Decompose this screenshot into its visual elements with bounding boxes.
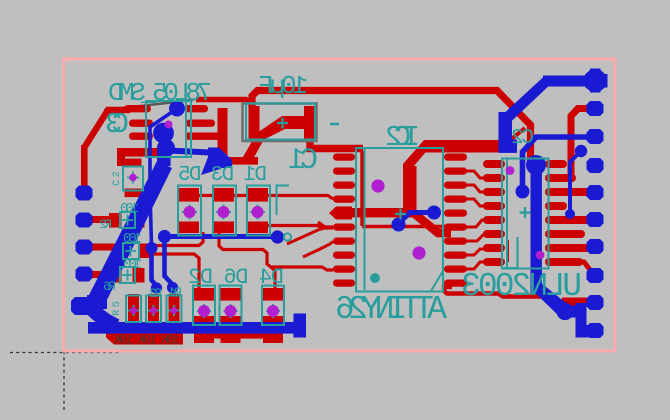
pad IC1 left row B	[129, 120, 153, 127]
svg-text:10K 10K 10K: 10K 10K 10K	[114, 334, 180, 348]
pad IC1 right row C + stub to R-vertical	[185, 133, 223, 140]
pad dot R5	[167, 282, 178, 293]
pad C1 left	[249, 106, 260, 139]
via big blob top	[153, 123, 174, 144]
C1 minus	[330, 123, 339, 126]
via dot end	[565, 209, 575, 219]
pad X1-1 octagon	[76, 186, 93, 282]
wire C2 corner bar	[117, 148, 164, 157]
svg-text:R2: R2	[99, 217, 112, 232]
wire IC2 interior vertical	[403, 166, 417, 217]
IC3 ULN2003 outline	[502, 159, 549, 269]
wire down to R5 top	[165, 237, 173, 287]
GND bus bar bottom	[88, 322, 296, 334]
wire GND thick diagonal	[88, 161, 172, 306]
pads IC3 right column rows with traces to connector	[545, 160, 590, 266]
wire thin from it down	[570, 153, 579, 212]
wire IC2 interior diag SE	[410, 210, 451, 233]
svg-text:10µF: 10µF	[258, 71, 308, 101]
wire Z bottom-right	[565, 306, 582, 318]
svg-text:D4 D6 D2: D4 D6 D2	[188, 265, 284, 290]
wire IC3 thick vertical	[531, 165, 542, 294]
wire jog IC3 row262 to octagon 276	[578, 262, 591, 271]
svg-text:IC2: IC2	[385, 121, 420, 154]
pad IC3 big round	[526, 155, 546, 175]
bracket silk near C1	[277, 186, 290, 216]
via dot x151	[146, 242, 158, 254]
wire thin net y254 to D2 top	[146, 254, 199, 288]
wire thin net D5 bottom to R4	[146, 232, 203, 246]
diode D6 pads	[221, 288, 241, 301]
resistor R5 vertical bar	[169, 294, 180, 324]
GND corner blob + square cap	[71, 297, 93, 315]
wire pad1 left column riser	[81, 145, 88, 193]
svg-text:D1 D3 D5: D1 D3 D5	[178, 164, 267, 187]
wire down to R3 top	[152, 248, 157, 288]
wire C1 right pad to IC2 x362	[310, 134, 363, 149]
svg-text:100: 100	[120, 201, 139, 217]
diode D2 pads	[194, 288, 214, 301]
via mid dot	[143, 184, 157, 198]
GND bus end cap	[294, 314, 307, 338]
wire diag B to IC2 interior	[403, 140, 436, 208]
IC3 plus	[520, 207, 531, 218]
wire stub X1-4 to R6	[88, 271, 112, 278]
wire elbow octagon109 riser	[571, 109, 588, 177]
diode D4 pads	[263, 288, 283, 301]
pads IC2 right column rows	[444, 154, 467, 287]
board outline	[64, 59, 616, 351]
via dot B	[516, 185, 530, 199]
wire red bar under blue Z	[562, 298, 587, 306]
wire thin net D4 jog east y267	[272, 267, 333, 270]
wire IC2 interior blue	[400, 213, 434, 223]
via blob lower	[157, 139, 175, 157]
wire stub X1-2 to R2	[88, 216, 112, 223]
wire thin continuing down	[150, 191, 152, 246]
resistor R3 outline	[146, 296, 161, 323]
svg-text:100: 100	[123, 231, 142, 247]
wire VCC trunk top: C1 left pad elbow to right	[252, 91, 531, 169]
svg-text:R3: R3	[149, 286, 162, 301]
IC2 ATTINY26 outline	[356, 148, 443, 292]
via purple IC2 upper	[371, 179, 384, 192]
via right end dot	[271, 230, 284, 243]
pad C1 right	[304, 106, 315, 139]
wire thick diag to bottom pads	[531, 283, 570, 318]
wire thin net D3 bottom to D4 top	[219, 232, 275, 288]
pad round bottom	[556, 303, 573, 320]
wire diag bar-to-C1-left-pad	[243, 136, 263, 165]
via dot x164 left end of mid line	[158, 230, 171, 243]
purple centers diodes bottom	[198, 305, 210, 317]
diode crosses top row	[182, 205, 265, 220]
wire from blob east	[168, 151, 210, 153]
purple centers resistors	[130, 307, 137, 314]
pad IC1 right row A	[185, 105, 208, 112]
wire thin net diode tops y195	[186, 196, 333, 200]
C1 teal outline	[246, 104, 315, 140]
diode D5 outline	[178, 186, 201, 236]
capacitor C2 outline	[123, 167, 143, 191]
svg-text:ATTINY26: ATTINY26	[335, 291, 447, 328]
resistor R2 outline	[120, 212, 135, 228]
wire IC1 to C1 medium trace y99	[196, 100, 252, 106]
wire C1 interior Z	[251, 116, 306, 144]
resistor R4 pads	[112, 244, 125, 259]
wire thin net D1 bottom to IC2	[267, 226, 333, 229]
diode D1 outline	[247, 186, 270, 236]
wire VCC thick diagonal	[500, 76, 554, 124]
svg-text:100: 100	[123, 257, 142, 273]
via dot IC2 interior	[392, 218, 406, 232]
via purple C2	[129, 174, 137, 182]
wire GND vertical below blob	[157, 146, 171, 166]
small silk circle	[284, 233, 291, 240]
wire red bar y160 to C1	[218, 157, 258, 165]
pad IC1 left row A	[124, 105, 151, 112]
wire medium line B to octagon137	[523, 137, 591, 189]
wire VCC vertical	[499, 112, 513, 146]
wire VCC thick bar	[543, 76, 589, 87]
svg-text:ULN2003: ULN2003	[461, 268, 582, 305]
diode D4 outline	[262, 286, 284, 326]
via purple IC3 top	[506, 166, 515, 175]
pad IC1 right row B	[186, 120, 215, 127]
origin crosshair dashed vertical	[63, 345, 65, 411]
pad IC1 left row C	[129, 133, 153, 140]
wire thick bar B y146	[424, 140, 504, 153]
wire thin net to IC2 row227 from left	[318, 222, 333, 227]
resistor R1 outline	[126, 296, 141, 323]
IC1 78L05 outline	[146, 101, 191, 157]
via dot near IC2 right	[427, 206, 441, 220]
C1 plus	[277, 118, 288, 129]
svg-text:R4: R4	[169, 285, 182, 300]
wire thin Z nets IC2-IC3	[466, 171, 486, 269]
wire red L vertical x222	[218, 108, 228, 165]
wire C2 corner vertical	[117, 148, 125, 166]
resistor crosses	[128, 305, 180, 316]
gray silk line near IC1	[104, 100, 193, 110]
pads IC2 left column rows	[333, 154, 355, 287]
C1 gray outline	[243, 104, 317, 142]
diode D6 outline	[220, 286, 242, 326]
wire mid horizontal y236	[165, 234, 278, 239]
IC2 box chamfer corner	[431, 271, 443, 291]
svg-text:C1: C1	[288, 144, 318, 178]
wire arrow blob to red bar	[208, 148, 232, 169]
resistor R3 vertical bar	[148, 294, 159, 324]
diode D1 pads	[248, 188, 268, 202]
bracket silk near IC3	[504, 237, 518, 268]
IC2 thin red vertical x362	[360, 151, 363, 226]
pad VCC cross top-right	[587, 74, 608, 88]
diode D3 pads	[214, 188, 234, 202]
wire pad1 riser diagonal	[84, 110, 130, 148]
pads IC3 left column rows	[483, 160, 505, 266]
svg-text:C3: C3	[105, 108, 129, 141]
resistor R5v outline	[167, 296, 182, 323]
via small near IC1	[169, 101, 185, 117]
pad dot R3	[151, 282, 162, 293]
diode D2 outline	[193, 286, 215, 326]
diode D5 pads	[179, 188, 199, 202]
IC2 thin red net y226	[362, 225, 448, 228]
svg-text:R6: R6	[103, 279, 116, 294]
svg-text:78L05_SMD: 78L05_SMD	[108, 78, 212, 108]
diode D3 outline	[213, 186, 236, 236]
via purple IC3 bottom	[536, 251, 545, 260]
wire thin red inside IC3	[506, 240, 509, 262]
wire thin red bridge bar B to trunk	[503, 128, 525, 146]
wire VCC square cap	[499, 140, 518, 153]
wire thin from via to down-left	[150, 110, 175, 188]
origin crosshair dashed horizontal	[10, 352, 120, 354]
red value bar 10K 10K 10K	[106, 333, 183, 345]
resistor R6 outline	[120, 267, 135, 283]
wire IC2 row283 to bottom-right octagon	[444, 287, 556, 297]
resistor R2 pads	[109, 213, 122, 228]
pad IC2 pin pointed row 213	[329, 207, 352, 220]
via small circle right col	[575, 145, 587, 157]
resistor R1 vertical bar	[128, 294, 139, 324]
wire thin bar linking diode tails y335	[196, 333, 282, 339]
pad C2 top	[125, 159, 142, 168]
via teal dot IC2	[370, 273, 380, 283]
via purple IC2 lower	[412, 246, 425, 259]
purple centers diodes top	[184, 206, 196, 218]
IC2 plus	[395, 209, 406, 220]
pad C2 bottom	[125, 189, 142, 198]
svg-text:C2: C2	[511, 127, 534, 150]
diode crosses bottom row	[197, 304, 280, 318]
wire thin diag NE to IC2 row227	[287, 228, 326, 245]
resistor R4 outline	[123, 243, 139, 259]
pads SV1 octagon column right	[587, 101, 604, 338]
via purple on blue blob	[165, 121, 173, 129]
wire stub X1-3 to R4	[88, 244, 112, 251]
resistor R6 pads	[109, 268, 122, 283]
wire IC2 interior bar west to pad row 213	[344, 208, 416, 217]
wire thin diag NE to IC2 row241	[303, 242, 333, 258]
